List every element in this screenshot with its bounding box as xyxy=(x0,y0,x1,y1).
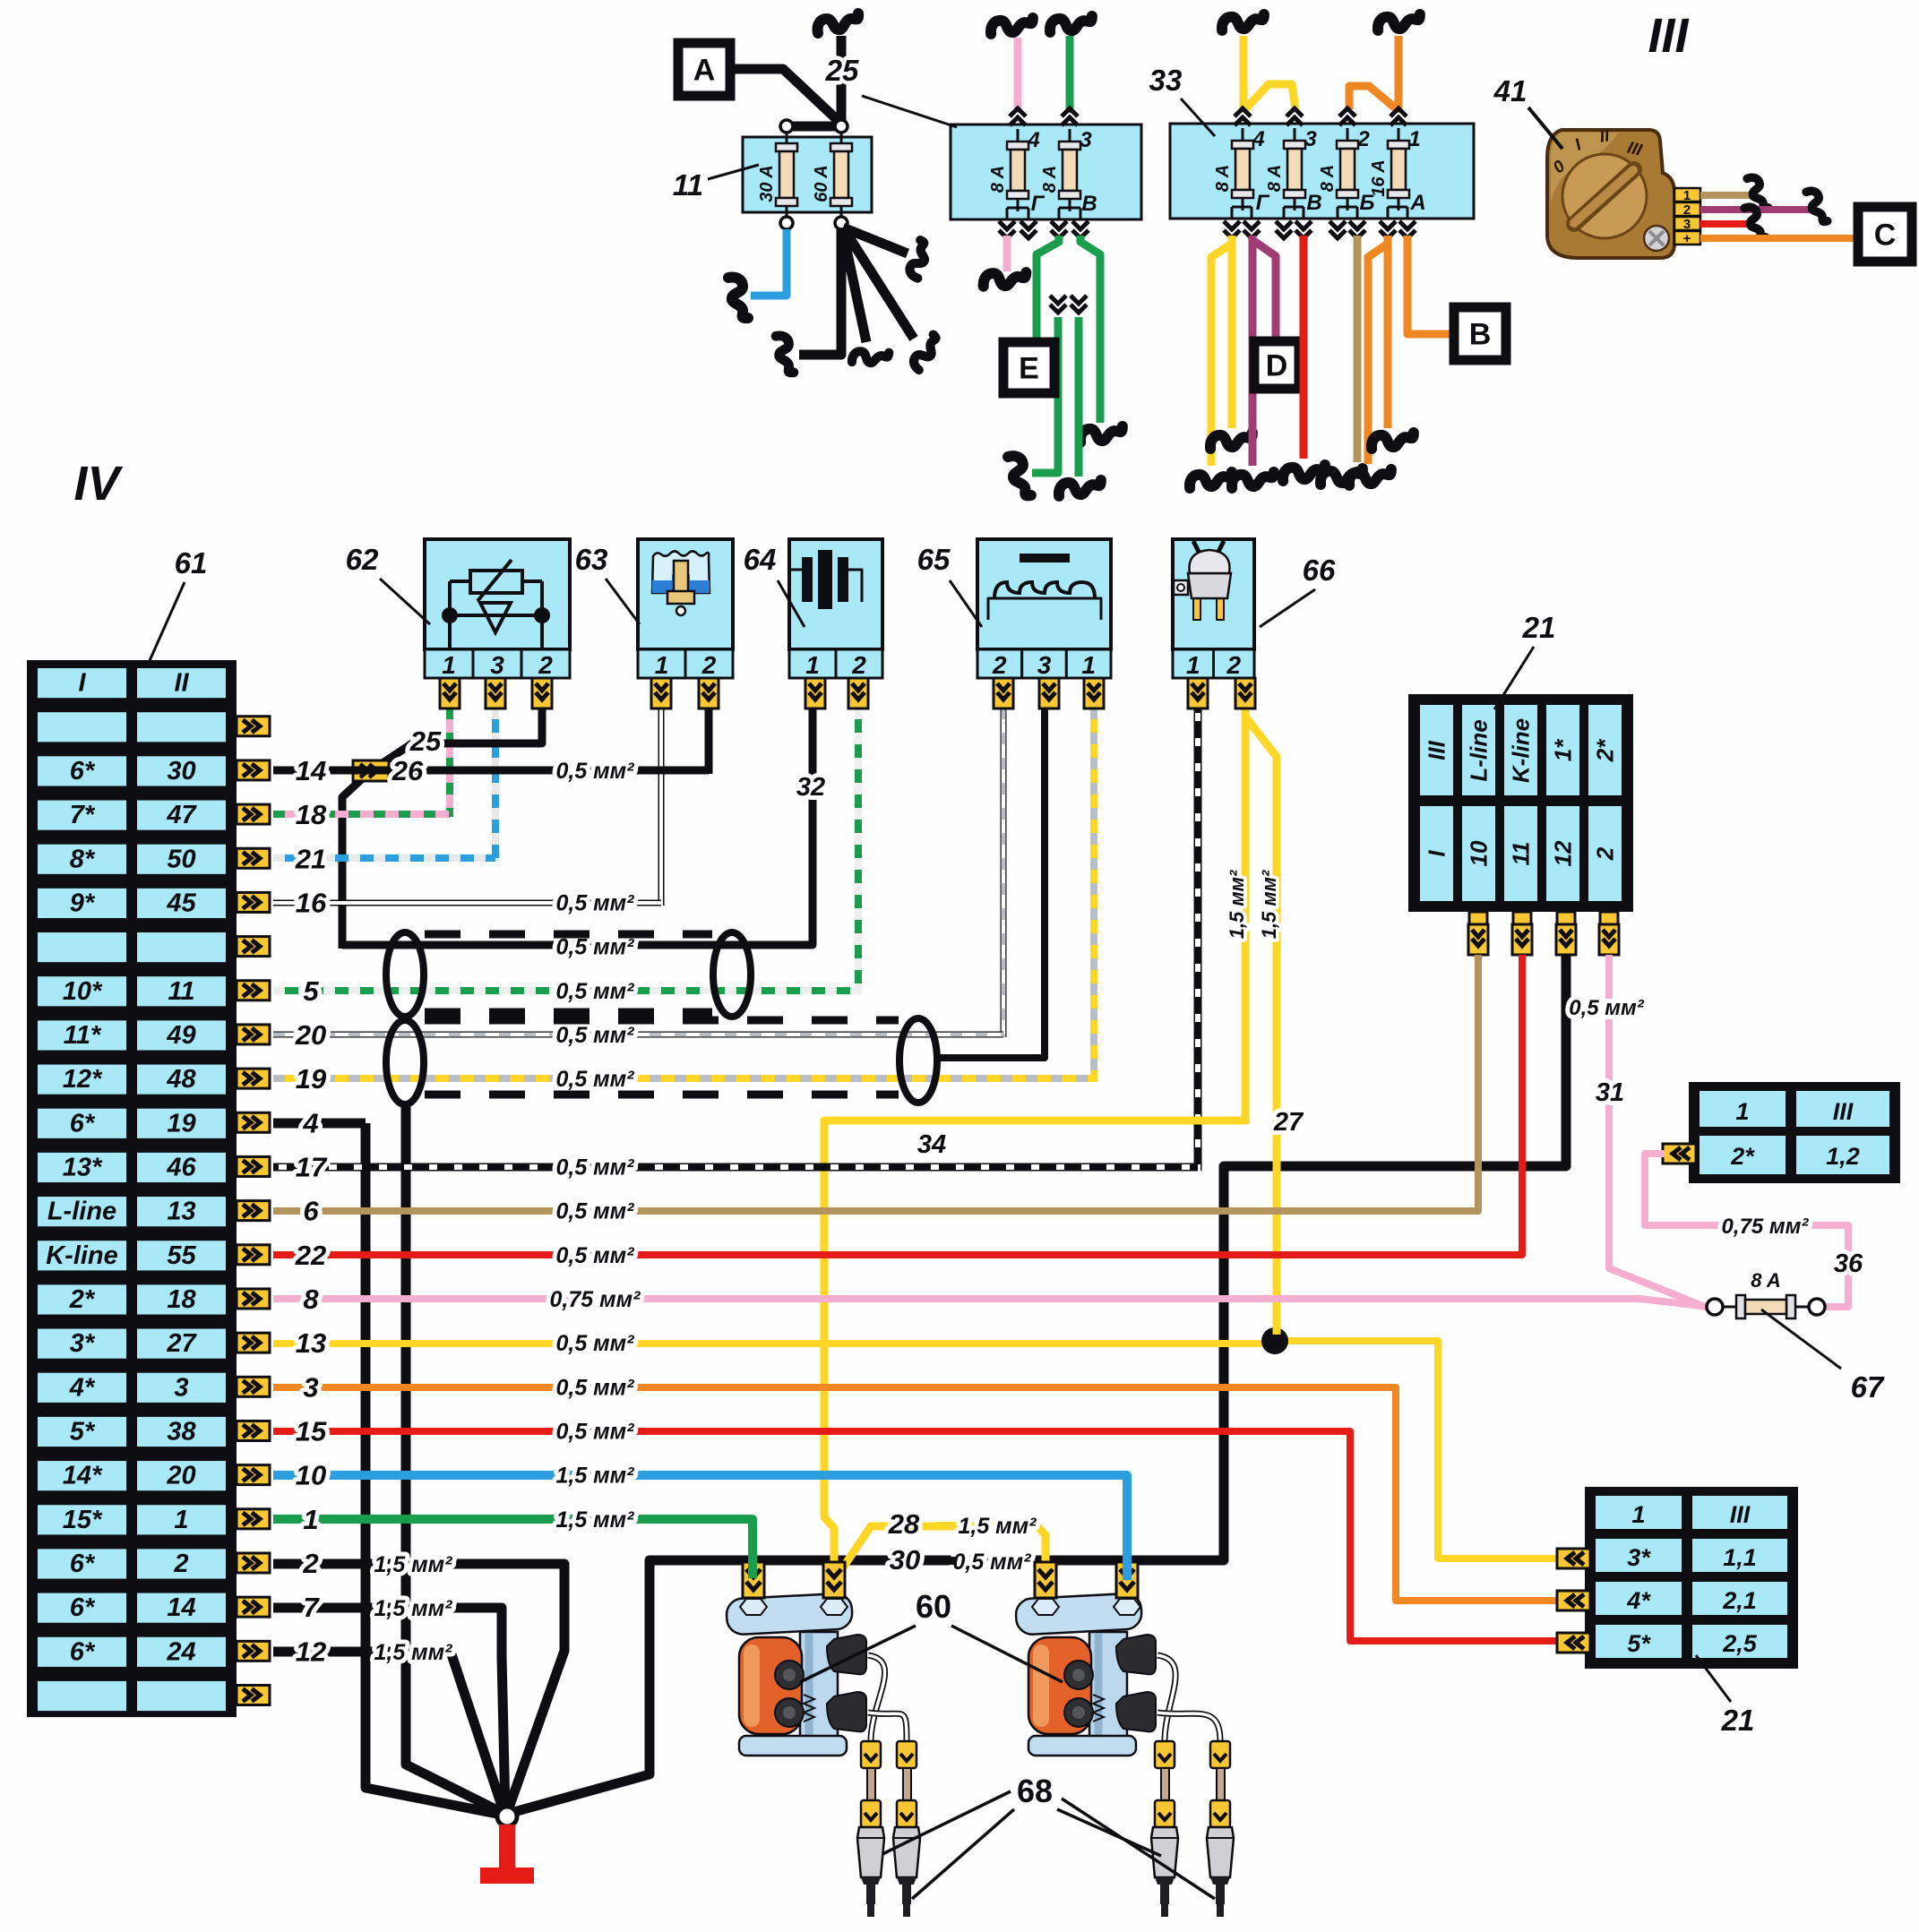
junction dot wire 13/27 xyxy=(1261,1327,1288,1354)
svg-text:D: D xyxy=(1266,349,1288,383)
wire 4 descent to ground xyxy=(366,1123,502,1815)
switch wire + (orange) to C xyxy=(1700,235,1858,242)
wire 20 vertical (white-gray) to 65 pin2 xyxy=(1001,708,1007,1037)
black wire fan from fuse 60A xyxy=(799,229,841,355)
wire linking fuse tops xyxy=(787,122,841,132)
wire 17 black-white row xyxy=(273,1163,1198,1172)
svg-text:I: I xyxy=(78,669,86,698)
lower block 21 row 5* xyxy=(1594,1623,1683,1660)
block 61 row 24 cells xyxy=(36,1679,128,1713)
svg-text:8: 8 xyxy=(303,1284,319,1315)
svg-text:27: 27 xyxy=(166,1329,197,1358)
block 61 pin row 2 xyxy=(237,717,270,736)
svg-text:2: 2 xyxy=(1356,127,1370,151)
svg-text:6*: 6* xyxy=(70,1109,96,1138)
wire 25 black from 62 pin2 xyxy=(369,708,542,772)
svg-text:25: 25 xyxy=(825,54,859,87)
ignition coil 60 frame xyxy=(1089,1632,1127,1750)
connector 21 cell bottom 10 xyxy=(1460,804,1497,903)
fuse output bracket xyxy=(1347,202,1349,207)
shield drain wire to ground xyxy=(406,1103,503,1813)
block 61 row 2 cells xyxy=(36,710,128,743)
block 61 pin row 15 xyxy=(237,1289,270,1309)
svg-text:III: III xyxy=(1648,9,1689,63)
svg-text:3*: 3* xyxy=(70,1329,96,1358)
connector 21 cell top 1* xyxy=(1545,703,1581,797)
yellow wire 33 (jog) xyxy=(1211,236,1232,466)
wire 15 red row xyxy=(273,1431,1556,1641)
svg-text:III: III xyxy=(1730,1501,1751,1528)
HV wire coil2 plug4 xyxy=(1157,1713,1220,1741)
svg-text:27: 27 xyxy=(1273,1108,1304,1137)
wire from A to fusebox 11 xyxy=(729,69,841,124)
svg-text:18: 18 xyxy=(167,1285,196,1314)
svg-text:1,2: 1,2 xyxy=(1826,1143,1860,1170)
svg-text:K-line: K-line xyxy=(1508,718,1535,783)
coil HV towers xyxy=(827,1635,866,1674)
svg-text:2: 2 xyxy=(302,1548,318,1579)
coil HV towers xyxy=(1116,1635,1156,1674)
fuse 67 8A xyxy=(1707,1299,1723,1315)
component 62 box xyxy=(425,539,570,649)
svg-text:4*: 4* xyxy=(69,1373,96,1402)
svg-text:1,5 мм²: 1,5 мм² xyxy=(555,1507,634,1533)
svg-text:1: 1 xyxy=(442,651,456,679)
svg-text:33: 33 xyxy=(1149,64,1183,97)
svg-text:3: 3 xyxy=(174,1373,188,1402)
svg-text:66: 66 xyxy=(1303,554,1336,587)
orange wire 33 (straight) xyxy=(1384,236,1392,428)
svg-text:36: 36 xyxy=(1834,1249,1863,1278)
svg-text:1,5 мм²: 1,5 мм² xyxy=(374,1596,452,1621)
svg-text:47: 47 xyxy=(166,801,197,829)
svg-text:8 A: 8 A xyxy=(1040,166,1060,193)
svg-text:45: 45 xyxy=(166,889,196,917)
svg-text:67: 67 xyxy=(1851,1370,1885,1404)
red pin11 wire lower part xyxy=(1519,955,1526,1255)
svg-text:31: 31 xyxy=(1596,1078,1624,1107)
svg-text:5: 5 xyxy=(303,975,319,1007)
wire 20 white-gray row xyxy=(273,1032,1003,1038)
wire 6 brown row xyxy=(273,940,1478,1211)
block 61 pin row 9 xyxy=(237,1025,270,1044)
svg-text:11: 11 xyxy=(1508,842,1535,866)
wire 17 vertical (black-white) to 66 pin1 xyxy=(1194,708,1202,1171)
svg-text:48: 48 xyxy=(166,1065,196,1094)
svg-text:8 A: 8 A xyxy=(1318,165,1338,192)
svg-text:0,5 мм²: 0,5 мм² xyxy=(555,1375,634,1400)
svg-text:0,5 мм²: 0,5 мм² xyxy=(555,935,634,960)
fuse 60A xyxy=(840,131,843,219)
svg-text:24: 24 xyxy=(166,1637,195,1666)
shield dashes pair1 top xyxy=(425,931,712,939)
svg-text:1: 1 xyxy=(1631,1501,1645,1528)
wire 7 black row xyxy=(273,1608,505,1811)
svg-text:5*: 5* xyxy=(1627,1630,1651,1657)
wire to battery (squiggle top) xyxy=(837,36,847,126)
spark plug 68 xyxy=(1207,1741,1234,1917)
fusebox 33 body xyxy=(1170,124,1474,219)
connector 21 cell bottom 2 xyxy=(1587,804,1623,903)
svg-text:19: 19 xyxy=(296,1063,327,1095)
terminal B box xyxy=(1454,307,1506,360)
svg-text:7: 7 xyxy=(303,1592,320,1623)
wire 14 black row xyxy=(273,767,709,775)
svg-text:21: 21 xyxy=(1522,611,1556,644)
svg-text:25: 25 xyxy=(409,726,442,757)
block 61 pin row 20 xyxy=(237,1509,270,1529)
svg-text:13*: 13* xyxy=(63,1153,103,1181)
fuse 25-4 output bracket xyxy=(1017,202,1020,208)
block 61 pin row 12 xyxy=(237,1156,270,1176)
svg-text:1: 1 xyxy=(1081,651,1096,679)
svg-text:III: III xyxy=(1833,1098,1854,1125)
block 61 row 18 cells xyxy=(36,1415,128,1448)
connector 21 cell bottom 12 xyxy=(1545,804,1581,903)
wire 1 green row xyxy=(273,1519,753,1584)
splice connector on wire 14 xyxy=(353,760,389,781)
svg-text:2: 2 xyxy=(1592,846,1619,861)
svg-text:C: C xyxy=(1874,219,1897,253)
svg-text:8 A: 8 A xyxy=(1213,165,1233,192)
green supply wire above fusebox 25 xyxy=(1066,36,1074,113)
lower block 21 row 1 xyxy=(1594,1494,1683,1531)
svg-text:0,5 мм²: 0,5 мм² xyxy=(555,1331,634,1356)
svg-text:10*: 10* xyxy=(63,977,103,1006)
svg-text:11*: 11* xyxy=(64,1021,102,1050)
orange wire 33 (jog) xyxy=(1368,236,1388,464)
svg-text:B: B xyxy=(1469,318,1492,352)
svg-text:2: 2 xyxy=(1683,202,1691,218)
small block cell 2* xyxy=(1698,1134,1787,1176)
svg-text:1: 1 xyxy=(1683,188,1691,203)
fuse 33-2 8A xyxy=(1347,128,1349,210)
svg-text:15: 15 xyxy=(296,1415,327,1447)
svg-text:3: 3 xyxy=(1683,217,1691,232)
shield ring E4 xyxy=(899,1018,937,1103)
connector 21 cell bottom 11 xyxy=(1502,804,1539,903)
svg-text:1,5 мм²: 1,5 мм² xyxy=(1226,870,1248,939)
block 61 pin row 17 xyxy=(237,1377,270,1396)
svg-text:46: 46 xyxy=(166,1153,196,1181)
orange link fuse2-fuse1 xyxy=(1349,86,1397,109)
svg-text:2*: 2* xyxy=(1592,738,1619,762)
svg-text:2,1: 2,1 xyxy=(1722,1587,1757,1614)
coil base plate xyxy=(739,1736,847,1756)
block 61 pin row 10 xyxy=(237,1069,270,1088)
svg-text:3: 3 xyxy=(1037,651,1052,679)
wire 5 green-white row xyxy=(273,987,858,994)
fuse output bracket xyxy=(1242,202,1244,207)
fuse 25-3 8A xyxy=(1069,129,1071,211)
svg-text:6*: 6* xyxy=(70,1593,96,1622)
block 61 pin row 24 xyxy=(237,1685,270,1704)
ignition coil 60 frame xyxy=(800,1632,838,1750)
svg-text:Г: Г xyxy=(1031,192,1046,216)
wire 5 vertical (green-white) to 64 pin2 xyxy=(855,708,862,994)
wire 18 vertical (green-pink) to 62 pin1 xyxy=(446,708,453,817)
svg-text:+: + xyxy=(1683,231,1691,246)
fuse 30A xyxy=(786,131,788,219)
svg-text:5*: 5* xyxy=(70,1417,96,1446)
shield dashes pair2 top xyxy=(425,1017,899,1025)
svg-text:60 A: 60 A xyxy=(812,165,831,202)
svg-text:2,5: 2,5 xyxy=(1722,1630,1758,1657)
terminal D box xyxy=(1254,341,1299,389)
fusebox 25 body xyxy=(951,125,1141,219)
block 61 pin row 6 xyxy=(237,892,270,912)
wire 21 blue-white row xyxy=(273,854,495,862)
block 61 row 1 cells xyxy=(36,666,128,700)
svg-text:1,5 мм²: 1,5 мм² xyxy=(374,1552,452,1577)
label 67 xyxy=(1761,1309,1841,1369)
svg-text:49: 49 xyxy=(166,1021,195,1050)
shield ring E1 xyxy=(386,932,424,1017)
wire 12 black row xyxy=(273,1652,503,1811)
ignition coil 60 bracket xyxy=(1015,1593,1142,1635)
svg-text:0,5 мм²: 0,5 мм² xyxy=(555,1419,634,1444)
svg-text:9*: 9* xyxy=(70,889,96,917)
wire 19 yellow-gray row xyxy=(273,1075,1094,1082)
svg-text:6: 6 xyxy=(303,1196,319,1227)
block 61 pin row 7 xyxy=(237,937,270,957)
block 61 pin row 21 xyxy=(237,1553,270,1573)
small connector block frame xyxy=(1689,1082,1900,1183)
svg-text:10: 10 xyxy=(1466,840,1493,866)
block 61 row 4 cells xyxy=(36,799,128,832)
svg-text:32: 32 xyxy=(796,773,825,802)
svg-text:L-line: L-line xyxy=(1466,719,1493,781)
block 61 row 3 cells xyxy=(36,754,128,787)
wire 4 black row xyxy=(273,1119,366,1129)
small block cell 1 xyxy=(1698,1089,1787,1129)
block 61 pin row 18 xyxy=(237,1421,270,1440)
switch wire 3 (red) xyxy=(1700,220,1751,228)
svg-text:17: 17 xyxy=(296,1151,328,1182)
svg-text:55: 55 xyxy=(167,1241,196,1270)
svg-text:0,75 мм²: 0,75 мм² xyxy=(550,1287,641,1312)
shield wire vertical to 65 pin3 xyxy=(934,708,1045,1058)
block 61 row 5 cells xyxy=(36,843,128,876)
connector 21 upper frame xyxy=(1408,694,1633,912)
svg-text:30 A: 30 A xyxy=(757,165,777,202)
orange supply wire above fusebox 33 xyxy=(1395,36,1403,113)
svg-text:65: 65 xyxy=(917,543,951,576)
pink supply wire above fusebox 25 xyxy=(1014,38,1022,113)
svg-text:4*: 4* xyxy=(1626,1587,1651,1614)
svg-text:3: 3 xyxy=(1080,128,1092,152)
svg-text:21: 21 xyxy=(1721,1704,1755,1737)
small block pin connector xyxy=(1663,1144,1696,1163)
tan wire 33 xyxy=(1354,236,1362,462)
svg-text:0,5 мм²: 0,5 мм² xyxy=(555,1155,634,1180)
svg-text:Г: Г xyxy=(1256,191,1270,215)
svg-text:Б: Б xyxy=(1360,191,1375,215)
svg-text:III: III xyxy=(1424,740,1450,760)
svg-text:2: 2 xyxy=(538,651,553,679)
svg-text:В: В xyxy=(1081,192,1097,216)
connector 21 cell top L-line xyxy=(1460,703,1497,797)
ground junction xyxy=(497,1807,517,1826)
svg-text:6*: 6* xyxy=(70,1550,96,1578)
svg-text:0,5 мм²: 0,5 мм² xyxy=(555,1067,634,1092)
green harness wire with connector xyxy=(1050,296,1066,313)
component 65 box xyxy=(977,539,1111,649)
block 61 row 11 cells xyxy=(36,1107,128,1140)
svg-text:1: 1 xyxy=(174,1506,188,1534)
svg-text:2: 2 xyxy=(992,651,1007,679)
svg-text:0,5 мм²: 0,5 мм² xyxy=(555,1023,634,1048)
svg-text:1*: 1* xyxy=(1550,738,1577,761)
component 63 box xyxy=(638,539,733,649)
svg-text:8 A: 8 A xyxy=(988,166,1008,193)
svg-text:IV: IV xyxy=(73,457,123,511)
svg-text:63: 63 xyxy=(575,543,608,576)
connector 21 cell top K-line xyxy=(1502,703,1539,797)
svg-text:61: 61 xyxy=(175,546,208,580)
svg-text:1,5 мм²: 1,5 мм² xyxy=(374,1640,452,1665)
shield dashes pair2 bottom xyxy=(425,1091,899,1099)
svg-text:1: 1 xyxy=(805,651,820,679)
block 61 row 21 cells xyxy=(36,1547,128,1580)
block 61 pin row 14 xyxy=(237,1245,270,1265)
block 61 pin row 4 xyxy=(237,804,270,824)
connector 21 cell top III xyxy=(1418,703,1455,797)
shielded pair black wire 0,5mm to 64 pin1, node 32 xyxy=(342,708,813,945)
svg-text:1,5 мм²: 1,5 мм² xyxy=(958,1514,1037,1539)
block 61 row 13 cells xyxy=(36,1195,128,1228)
HV wire coil1 plug2 xyxy=(868,1713,907,1741)
svg-text:A: A xyxy=(693,54,716,88)
fuse 33-3 8A xyxy=(1294,128,1296,210)
block 61 row 16 cells xyxy=(36,1327,128,1361)
svg-text:2: 2 xyxy=(1226,651,1241,679)
svg-text:2*: 2* xyxy=(69,1285,96,1314)
block 61 row 20 cells xyxy=(36,1503,128,1536)
svg-text:1,5 мм²: 1,5 мм² xyxy=(1258,870,1280,939)
svg-text:22: 22 xyxy=(295,1240,326,1271)
green wire fuse 25-3 to E xyxy=(1037,236,1059,342)
pink wire from fuse 25-4 xyxy=(1003,236,1011,271)
block 61 pin row 19 xyxy=(237,1465,270,1485)
switch wire 2 (purple) xyxy=(1700,206,1811,213)
small block cell III xyxy=(1794,1089,1891,1129)
block 61 row 8 cells xyxy=(36,975,128,1008)
svg-text:0,5 мм²: 0,5 мм² xyxy=(952,1550,1031,1575)
block 61 row 10 cells xyxy=(36,1063,128,1096)
green harness wire 2 with connector xyxy=(1071,296,1087,313)
block 61 pin row 11 xyxy=(237,1112,270,1132)
terminal A box xyxy=(678,43,730,96)
fusebox 11 body xyxy=(743,137,872,212)
svg-text:13: 13 xyxy=(296,1327,326,1359)
wire 10 blue row xyxy=(273,1475,1127,1600)
coil base plate xyxy=(1028,1736,1136,1756)
svg-text:14: 14 xyxy=(167,1593,195,1622)
wire 30 black from connector 21 pin 12 to ground xyxy=(511,955,1566,1813)
red wire 33 xyxy=(1300,236,1308,459)
lower block 21 row 4* xyxy=(1594,1580,1683,1617)
coil pin connectors xyxy=(743,1562,764,1598)
wire 19 vertical (yellow-gray) to 65 pin1 xyxy=(1090,708,1097,1082)
block 61 pin row 3 xyxy=(237,760,270,780)
wire 3 orange row xyxy=(273,1387,1556,1601)
block 61 row 14 cells xyxy=(36,1239,128,1272)
pink wire 36 circuit xyxy=(1645,1154,1848,1307)
spark plug 68 xyxy=(857,1741,884,1917)
svg-text:1: 1 xyxy=(1735,1098,1749,1125)
svg-text:50: 50 xyxy=(167,845,195,873)
block 61 row 23 cells xyxy=(36,1636,128,1669)
fuse 25-4 8A xyxy=(1017,129,1020,211)
svg-text:19: 19 xyxy=(167,1109,195,1138)
switch pin block xyxy=(1674,188,1700,202)
block 61 pin row 23 xyxy=(237,1641,270,1661)
brown pin10 wire lower part xyxy=(1475,955,1482,1211)
coil bolts xyxy=(775,1661,804,1689)
wire 21 vertical (blue-white) to 62 pin3 xyxy=(492,708,499,861)
svg-text:11: 11 xyxy=(673,168,703,202)
wire crossing overlays (colored over black) xyxy=(748,1548,757,1578)
block 61 row 12 cells xyxy=(36,1151,128,1184)
yellow wire 33 (straight) xyxy=(1228,236,1236,428)
block 61 pin row 8 xyxy=(237,981,270,1000)
svg-text:1: 1 xyxy=(1408,127,1420,151)
svg-text:1,5 мм²: 1,5 мм² xyxy=(555,1464,634,1489)
svg-text:7*: 7* xyxy=(70,801,96,829)
wire 8 pink row xyxy=(273,1299,1709,1307)
orange wire 33 to B xyxy=(1407,236,1454,334)
svg-text:2*: 2* xyxy=(1730,1143,1755,1170)
wire 16 white row xyxy=(273,900,661,906)
svg-text:30: 30 xyxy=(890,1544,920,1576)
yellow link fuse4-fuse3 xyxy=(1245,84,1295,109)
coil bolts xyxy=(1064,1661,1093,1689)
connector 21 cell top 2* xyxy=(1587,703,1623,797)
svg-text:18: 18 xyxy=(296,799,327,830)
svg-text:L-line: L-line xyxy=(47,1198,116,1226)
svg-text:4: 4 xyxy=(302,1107,318,1138)
lower connector 21 frame xyxy=(1585,1487,1798,1669)
wire 34 yellow link xyxy=(824,1121,1245,1600)
svg-text:30: 30 xyxy=(167,757,195,786)
wire 31 pink from pin 2 xyxy=(1609,955,1709,1309)
svg-text:1: 1 xyxy=(303,1504,318,1535)
green wire fuse 25-3 right branch xyxy=(1080,236,1100,423)
svg-text:60: 60 xyxy=(916,1588,951,1625)
fuse 33-1 16A xyxy=(1398,128,1400,210)
block 61 row 17 cells xyxy=(36,1371,128,1404)
wire 16 vertical (white) to 63 pin1 xyxy=(658,708,665,906)
ignition coil 60 winding xyxy=(739,1637,802,1734)
svg-text:12*: 12* xyxy=(63,1065,103,1094)
svg-text:26: 26 xyxy=(392,755,424,786)
svg-text:3: 3 xyxy=(303,1371,318,1403)
block 61 pin row 22 xyxy=(237,1597,270,1617)
block 61 pin row 5 xyxy=(237,848,270,868)
svg-text:34: 34 xyxy=(917,1130,946,1159)
ground symbol xyxy=(499,1825,515,1869)
lower block 21 row 3* xyxy=(1594,1537,1683,1574)
svg-text:20: 20 xyxy=(295,1019,326,1051)
purple wire 33 (straight) xyxy=(1249,236,1257,466)
svg-text:14*: 14* xyxy=(63,1462,103,1490)
svg-text:А: А xyxy=(1409,191,1425,215)
svg-text:10: 10 xyxy=(296,1460,326,1491)
svg-text:2: 2 xyxy=(851,651,866,679)
svg-text:20: 20 xyxy=(166,1462,195,1490)
svg-text:11: 11 xyxy=(168,977,194,1006)
